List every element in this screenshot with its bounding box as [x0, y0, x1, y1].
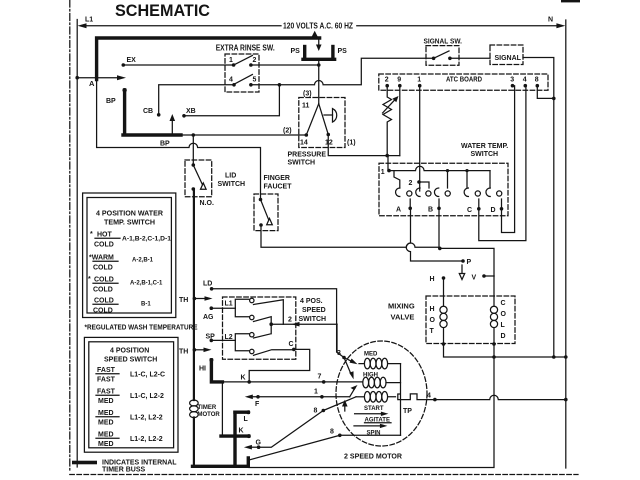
svg-text:(1): (1) [347, 140, 356, 147]
svg-text:F: F [255, 401, 260, 408]
svg-text:G: G [256, 440, 262, 447]
svg-text:TP: TP [403, 408, 412, 415]
wire N rail right vertical [565, 20, 567, 468]
svg-text:BP: BP [106, 98, 116, 105]
signal box [490, 45, 523, 65]
speed switch contact c4 [250, 349, 254, 353]
wire B drop [438, 209, 440, 249]
wire thick bottom buss [193, 458, 249, 466]
thermistor arrow [383, 99, 397, 114]
water temp contact pair B [434, 188, 438, 197]
svg-text:12: 12 [325, 140, 333, 147]
svg-text:4: 4 [229, 77, 233, 84]
wire SIGNAL to N-side drop [523, 58, 554, 99]
wire ATC9 drop [399, 86, 401, 156]
svg-text:O: O [430, 317, 436, 324]
svg-text:COLD: COLD [93, 265, 113, 272]
border dash-dot left [69, 0, 71, 473]
signal switch contact left [432, 57, 436, 61]
svg-text:4: 4 [427, 393, 431, 400]
junction valve return / N [564, 355, 568, 359]
svg-text:FINGER: FINGER [264, 175, 290, 182]
node SP [210, 339, 214, 343]
wire K line to motor 7 [222, 381, 362, 383]
svg-text:C: C [501, 300, 506, 307]
wire 8a to start [323, 397, 356, 411]
node G [257, 445, 261, 449]
wire 4 to N (hop over cold drop) [435, 395, 566, 399]
finger faucet contact top [259, 198, 263, 202]
svg-text:1: 1 [314, 389, 318, 396]
finger faucet contact bottom [259, 223, 263, 227]
svg-text:TH: TH [179, 349, 188, 356]
motor terminal 1 [320, 395, 324, 399]
svg-text:FAST: FAST [97, 377, 116, 384]
cold solenoid coil [493, 276, 495, 306]
lid switch box [185, 160, 212, 197]
svg-text:LID: LID [225, 173, 236, 180]
svg-text:MED: MED [98, 420, 114, 427]
finger faucet fixed contact triangle [267, 218, 273, 224]
extra rinse contact 1 [232, 63, 236, 67]
svg-text:BP: BP [160, 141, 170, 148]
svg-text:A: A [396, 207, 401, 214]
thick terminal L [235, 411, 248, 414]
svg-text:COLD: COLD [93, 308, 113, 315]
wire output 2 drop to LD line [336, 324, 338, 352]
wire buss to finger faucet (hop over lid drop) [97, 80, 261, 200]
node F [256, 395, 260, 399]
svg-text:COLD: COLD [94, 242, 114, 249]
junction cold coil box bottom [492, 342, 496, 346]
speed switch contact c3 [250, 333, 254, 337]
svg-text:N: N [548, 17, 553, 24]
wire faucet to mixing valve cold (hop over A drop) [261, 225, 440, 247]
junction blades/output2 [269, 322, 273, 326]
wire PS feed down arrow [318, 40, 320, 46]
svg-text:D: D [501, 333, 506, 340]
svg-text:PS: PS [291, 48, 301, 55]
motor terminal 3 [342, 356, 346, 360]
wire C to K node [249, 349, 310, 382]
wire 8b to motor tie [340, 434, 401, 436]
node LD [210, 287, 214, 291]
water temp contact pair D [486, 188, 490, 197]
wire ATC1 drop to water temp (hop over top wire) [419, 86, 421, 191]
svg-text:5: 5 [253, 77, 257, 84]
HIGH winding [386, 382, 401, 384]
wire left rail L1 vertical [76, 20, 78, 468]
extra rinse blade 4-5 [235, 75, 253, 84]
svg-text:B: B [428, 207, 433, 214]
svg-text:*: * [90, 231, 93, 238]
svg-text:MED: MED [364, 352, 378, 358]
wire BP to pressure switch 14 [181, 134, 306, 136]
svg-text:K: K [241, 375, 246, 382]
wire thick buss top rail [97, 38, 320, 80]
junction valve return / signal drop [552, 355, 556, 359]
svg-text:11: 11 [302, 103, 310, 110]
motor terminal 7 [322, 380, 326, 384]
wire faucet net to cold valve [440, 248, 494, 276]
node H [442, 276, 446, 280]
mixing valve box [426, 296, 515, 344]
svg-text:A-2,B-1,C-1: A-2,B-1,C-1 [130, 281, 163, 287]
arrowhead A (points right) [117, 75, 126, 80]
wire PS center drop [318, 61, 320, 104]
speed switch contact c1 [250, 298, 254, 302]
node HI thick leg [209, 358, 213, 362]
pressure switch bell symbol [324, 114, 333, 116]
svg-text:COLD: COLD [94, 298, 114, 305]
svg-text:SWITCH: SWITCH [218, 181, 246, 188]
svg-text:L1: L1 [85, 17, 93, 24]
wire V stub [484, 275, 494, 277]
pressure switch PS bracket right post [331, 47, 334, 60]
water temp top buss wire with hop [389, 166, 490, 170]
svg-text:1: 1 [417, 77, 421, 84]
svg-text:3: 3 [337, 350, 341, 357]
wire timer rail (lid switch to bottom) [193, 189, 195, 400]
node BP stub thick [123, 90, 126, 133]
agitate arrow [355, 413, 383, 415]
pressure switch blade 11-12 [319, 104, 329, 135]
wire 120V rail right segment [357, 25, 557, 27]
svg-text:3: 3 [510, 77, 514, 84]
border dash top-right remnant [561, 0, 580, 2]
L1 feed bracket [235, 299, 249, 317]
svg-text:FAST: FAST [97, 367, 116, 374]
svg-text:L: L [501, 322, 506, 329]
ATC board box [379, 74, 548, 90]
pressure switch terminal 12 [326, 133, 330, 137]
svg-text:SIGNAL SW.: SIGNAL SW. [424, 39, 463, 46]
svg-text:8: 8 [314, 408, 318, 415]
svg-text:L1-C, L2-C: L1-C, L2-C [130, 372, 165, 379]
svg-text:SIGNAL: SIGNAL [495, 55, 522, 62]
svg-text:*REGULATED WASH TEMPERATURE: *REGULATED WASH TEMPERATURE [85, 325, 198, 332]
svg-text:H: H [430, 306, 435, 313]
svg-text:SPEED SWITCH: SPEED SWITCH [104, 357, 157, 364]
svg-text:TIMER: TIMER [198, 405, 217, 411]
svg-text:PS: PS [338, 48, 348, 55]
motor right tie vertical [400, 364, 402, 436]
svg-text:HOT: HOT [97, 232, 113, 239]
finger faucet blade [261, 200, 269, 220]
centrifugal switch arrow [350, 388, 355, 397]
svg-text:VALVE: VALVE [391, 313, 415, 322]
arrowhead L1 (points left) [78, 23, 87, 28]
svg-text:4 POSITION: 4 POSITION [110, 348, 149, 355]
pressure switch terminal 14 [305, 133, 309, 137]
svg-text:SWITCH: SWITCH [471, 151, 499, 158]
arrow P hollow down [461, 265, 463, 273]
svg-text:*WARM: *WARM [89, 255, 114, 262]
wire lid switch feed [192, 135, 194, 165]
svg-text:TIMER BUSS: TIMER BUSS [102, 467, 146, 474]
svg-text:INDICATES INTERNAL: INDICATES INTERNAL [102, 460, 177, 467]
wire K2 tie down [221, 382, 223, 436]
svg-text:A-1,B-2,C-1,D-1: A-1,B-2,C-1,D-1 [122, 237, 172, 243]
spin arrow [354, 425, 382, 427]
svg-text:TH: TH [179, 297, 188, 304]
junction XB/CB [278, 83, 282, 87]
wire drop to water temp 1 [387, 156, 389, 171]
svg-text:SWITCH: SWITCH [299, 316, 327, 323]
wire output 2 [271, 323, 337, 325]
svg-text:L: L [244, 416, 249, 423]
svg-text:4 POSITION WATER: 4 POSITION WATER [96, 211, 163, 218]
water temp switch box [379, 163, 508, 216]
wire node A horizontal with arrow [77, 77, 119, 79]
finger faucet box [254, 194, 278, 231]
svg-text:AG: AG [203, 314, 214, 321]
svg-text:FAUCET: FAUCET [264, 184, 293, 191]
motor blade 3 to MED [344, 358, 353, 363]
pressure switch PS bracket bottom bar [303, 58, 335, 61]
svg-text:LD: LD [203, 281, 212, 288]
wire signal sw to SIGNAL [450, 57, 490, 59]
svg-text:MED: MED [98, 398, 114, 405]
svg-text:4 POS.: 4 POS. [300, 298, 323, 305]
extra rinse contact 5 [249, 83, 253, 87]
svg-text:T: T [430, 328, 435, 335]
water temp drops to contacts [394, 171, 400, 188]
speed switch box [223, 297, 296, 359]
svg-text:SCHEMATIC: SCHEMATIC [115, 2, 210, 20]
svg-text:*: * [88, 276, 91, 283]
svg-text:V: V [472, 275, 477, 282]
svg-text:A: A [89, 79, 95, 88]
junction hot coil box bottom [442, 342, 446, 346]
wire G arrow [250, 446, 259, 448]
wire SP to L2 [211, 339, 235, 341]
node C of speed switch [292, 348, 296, 352]
arrowhead up at 120V text [312, 31, 318, 37]
svg-text:COLD: COLD [94, 277, 114, 284]
svg-text:B-1: B-1 [141, 302, 151, 308]
lid switch contact top [192, 163, 196, 167]
wire XB leg [184, 85, 279, 116]
blade c4 to C [254, 350, 294, 356]
svg-text:1: 1 [229, 57, 233, 64]
timer contact TH lower [193, 348, 197, 352]
blade c2/c3 tie [254, 317, 272, 338]
node CB [157, 113, 161, 117]
pressure switch PS bracket left post [303, 47, 306, 60]
svg-text:7: 7 [318, 374, 322, 381]
node V [482, 274, 486, 278]
motor blade 3 to HIGH [344, 358, 351, 375]
svg-text:(3): (3) [303, 91, 312, 98]
water temp contact pair C [464, 188, 468, 197]
wire contact5 to XB junction and on to signal sw (hop at PS line) [251, 58, 434, 85]
svg-text:O: O [501, 311, 507, 318]
node 4 [433, 398, 437, 402]
wire A drop to P (hop over faucet line) [406, 208, 463, 261]
svg-text:120 VOLTS A.C. 60 HZ: 120 VOLTS A.C. 60 HZ [283, 22, 353, 31]
legend: 4 position water temp switch box [83, 193, 176, 318]
timer contact TH upper [193, 297, 197, 301]
svg-text:C: C [467, 207, 472, 214]
svg-text:L1-C, L2-2: L1-C, L2-2 [130, 393, 164, 400]
svg-text:MED: MED [98, 410, 114, 417]
wire contact2 to PS center [251, 64, 319, 66]
svg-text:K: K [239, 428, 244, 435]
wire G to motor 8a [259, 411, 324, 448]
pressure switch blade 11-14 [306, 104, 318, 135]
junction lid switch tap [192, 133, 196, 137]
junction PS/EX [317, 63, 321, 67]
extra rinse switch box [225, 54, 259, 92]
svg-text:8: 8 [535, 77, 539, 84]
signal switch contact right [448, 57, 452, 61]
pressure switch box [299, 98, 345, 148]
wire valve return to N [444, 344, 566, 357]
svg-text:H: H [430, 276, 435, 283]
svg-text:MED: MED [98, 441, 114, 448]
node P [461, 259, 465, 263]
wire LD to motor terminal 3 [212, 289, 344, 358]
wire 12 to ATC net [328, 135, 400, 156]
junction valve return / cold drop [492, 355, 496, 359]
svg-text:MED: MED [98, 432, 114, 439]
thick vertical leg [233, 412, 236, 466]
svg-text:TEMP. SWITCH: TEMP. SWITCH [104, 220, 155, 227]
svg-text:WATER TEMP.: WATER TEMP. [461, 143, 508, 150]
start contact and TP [388, 394, 401, 400]
wire L1 rail top [82, 25, 281, 27]
wire AG to L1 [211, 307, 235, 309]
svg-text:N.O.: N.O. [200, 200, 214, 207]
svg-text:CB: CB [143, 108, 153, 115]
speed switch contact c2 [250, 315, 254, 319]
wire F line to motor 1 [251, 396, 350, 398]
svg-text:2: 2 [253, 57, 257, 64]
svg-text:C: C [289, 341, 294, 348]
wire signal drop to mixing valve return [553, 98, 555, 357]
signal switch blade [434, 51, 449, 58]
MED winding [359, 363, 401, 365]
2 speed motor dashed circle [336, 341, 427, 446]
svg-text:SPEED: SPEED [302, 307, 326, 314]
wire BP bottom thick [123, 133, 181, 136]
svg-text:L1-2, L2-2: L1-2, L2-2 [130, 436, 163, 443]
svg-text:2: 2 [409, 180, 413, 187]
node EX [122, 63, 126, 67]
svg-text:(2): (2) [283, 128, 292, 135]
thermistor on ATC2 line [383, 86, 392, 156]
svg-text:D: D [491, 207, 496, 214]
wire ATC8 to signal drop [537, 86, 554, 99]
wire cold return drop to bottom [249, 357, 494, 468]
extra rinse contact 4 [232, 83, 236, 87]
timer motor coil [190, 400, 199, 406]
svg-text:P: P [467, 259, 472, 266]
water temp contact pair 2 [416, 188, 420, 197]
svg-text:ATC BOARD: ATC BOARD [446, 76, 482, 83]
svg-text:1: 1 [381, 169, 385, 176]
svg-text:EX: EX [127, 57, 137, 64]
wire terminal2 stub [419, 182, 429, 188]
svg-text:4: 4 [523, 77, 527, 84]
svg-text:PRESSURE: PRESSURE [288, 152, 327, 159]
svg-text:2 SPEED MOTOR: 2 SPEED MOTOR [344, 452, 403, 461]
junction 4/N [564, 398, 568, 402]
lid switch contact bottom [192, 187, 196, 191]
svg-text:XB: XB [186, 108, 196, 115]
svg-text:2: 2 [288, 317, 292, 324]
svg-text:START: START [364, 406, 384, 412]
wire C to ATC4 [479, 86, 526, 241]
signal switch box [426, 46, 459, 66]
wire EX to extra rinse contact 1 [123, 64, 233, 66]
wire CB riser to contact4 [159, 85, 234, 115]
legend: 4 position speed switch box [84, 337, 178, 452]
wire stub to motor 8b [249, 435, 340, 460]
junction K [247, 380, 251, 384]
svg-text:EXTRA RINSE SW.: EXTRA RINSE SW. [216, 44, 275, 53]
svg-text:2: 2 [385, 77, 389, 84]
lid switch fixed contact triangle [201, 183, 207, 189]
svg-text:SP: SP [206, 334, 216, 341]
START winding [356, 396, 364, 398]
node AG [210, 306, 214, 310]
junction signal/ATC8 [552, 97, 556, 101]
svg-text:L1: L1 [225, 301, 233, 308]
junction node A on left rail [75, 76, 79, 80]
lid switch blade [193, 165, 202, 184]
junction thermistor/watertemp1 [385, 154, 389, 158]
wire D to ATC3 [502, 86, 515, 233]
thick terminal K [221, 434, 249, 437]
svg-text:L2: L2 [225, 334, 233, 341]
border dash bottom [70, 474, 578, 476]
svg-text:8: 8 [330, 429, 334, 436]
arrowhead BP up arrow [171, 119, 173, 133]
L2 feed bracket [235, 334, 249, 351]
TP protector jog [401, 394, 435, 400]
junction B/faucet net [438, 247, 442, 251]
arrowhead N (points right) [556, 23, 565, 28]
svg-text:HI: HI [199, 366, 206, 373]
motor terminal 8b [338, 434, 342, 438]
svg-text:9: 9 [397, 77, 401, 84]
svg-text:COLD: COLD [93, 287, 113, 294]
svg-text:MOTOR: MOTOR [198, 412, 221, 418]
svg-text:MIXING: MIXING [388, 302, 415, 311]
svg-text:FAST: FAST [97, 389, 116, 396]
svg-text:A-2,B-1: A-2,B-1 [132, 258, 154, 264]
hot solenoid coil [443, 278, 445, 306]
legend: timer buss note [72, 461, 97, 465]
motor terminal 8a [322, 409, 326, 413]
extra rinse blade 1-2 [234, 56, 253, 66]
blade c1 to bus2 [254, 300, 284, 325]
svg-text:SWITCH: SWITCH [288, 160, 316, 167]
svg-text:14: 14 [300, 140, 308, 147]
node XB [182, 114, 186, 118]
arrowhead PS feed (points down) [316, 45, 322, 52]
water temp contact pair A [396, 188, 400, 197]
svg-text:L1-2, L2-2: L1-2, L2-2 [130, 415, 163, 422]
extra rinse contact 2 [249, 63, 253, 67]
